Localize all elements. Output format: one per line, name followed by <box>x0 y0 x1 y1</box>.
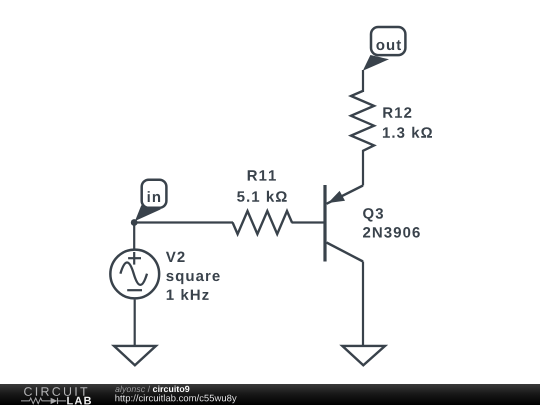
resistor R11 <box>233 211 292 234</box>
ground (right) <box>342 346 385 365</box>
ground (left) <box>114 346 156 365</box>
wire out flag to R12 <box>362 70 364 92</box>
V2 label <box>166 252 185 263</box>
resistor R12 <box>351 91 374 151</box>
wire R12 to Q3 emitter <box>362 150 364 186</box>
footer url text <box>115 394 236 403</box>
Q3 part number label <box>363 227 420 238</box>
R11 value label <box>237 191 287 202</box>
V2 type label <box>166 273 219 284</box>
wire in to R11 <box>134 221 233 223</box>
wire in junction to V2 <box>133 223 135 250</box>
node in flag <box>135 180 166 221</box>
wire V2 to ground <box>134 300 136 345</box>
wire Q3 collector to ground <box>362 262 364 346</box>
V2 frequency label <box>167 289 209 300</box>
wire R11 to Q3 base <box>292 221 326 223</box>
node out flag <box>363 27 406 71</box>
transistor Q3 <box>325 185 363 262</box>
R11 label <box>248 170 276 180</box>
voltage source V2 <box>110 250 159 299</box>
junction node at in <box>131 219 138 226</box>
R12 value label <box>383 127 432 138</box>
footer attribution text <box>115 386 189 394</box>
Q3 label <box>363 208 383 222</box>
CircuitLab logo <box>21 387 91 404</box>
R12 label <box>383 107 411 118</box>
